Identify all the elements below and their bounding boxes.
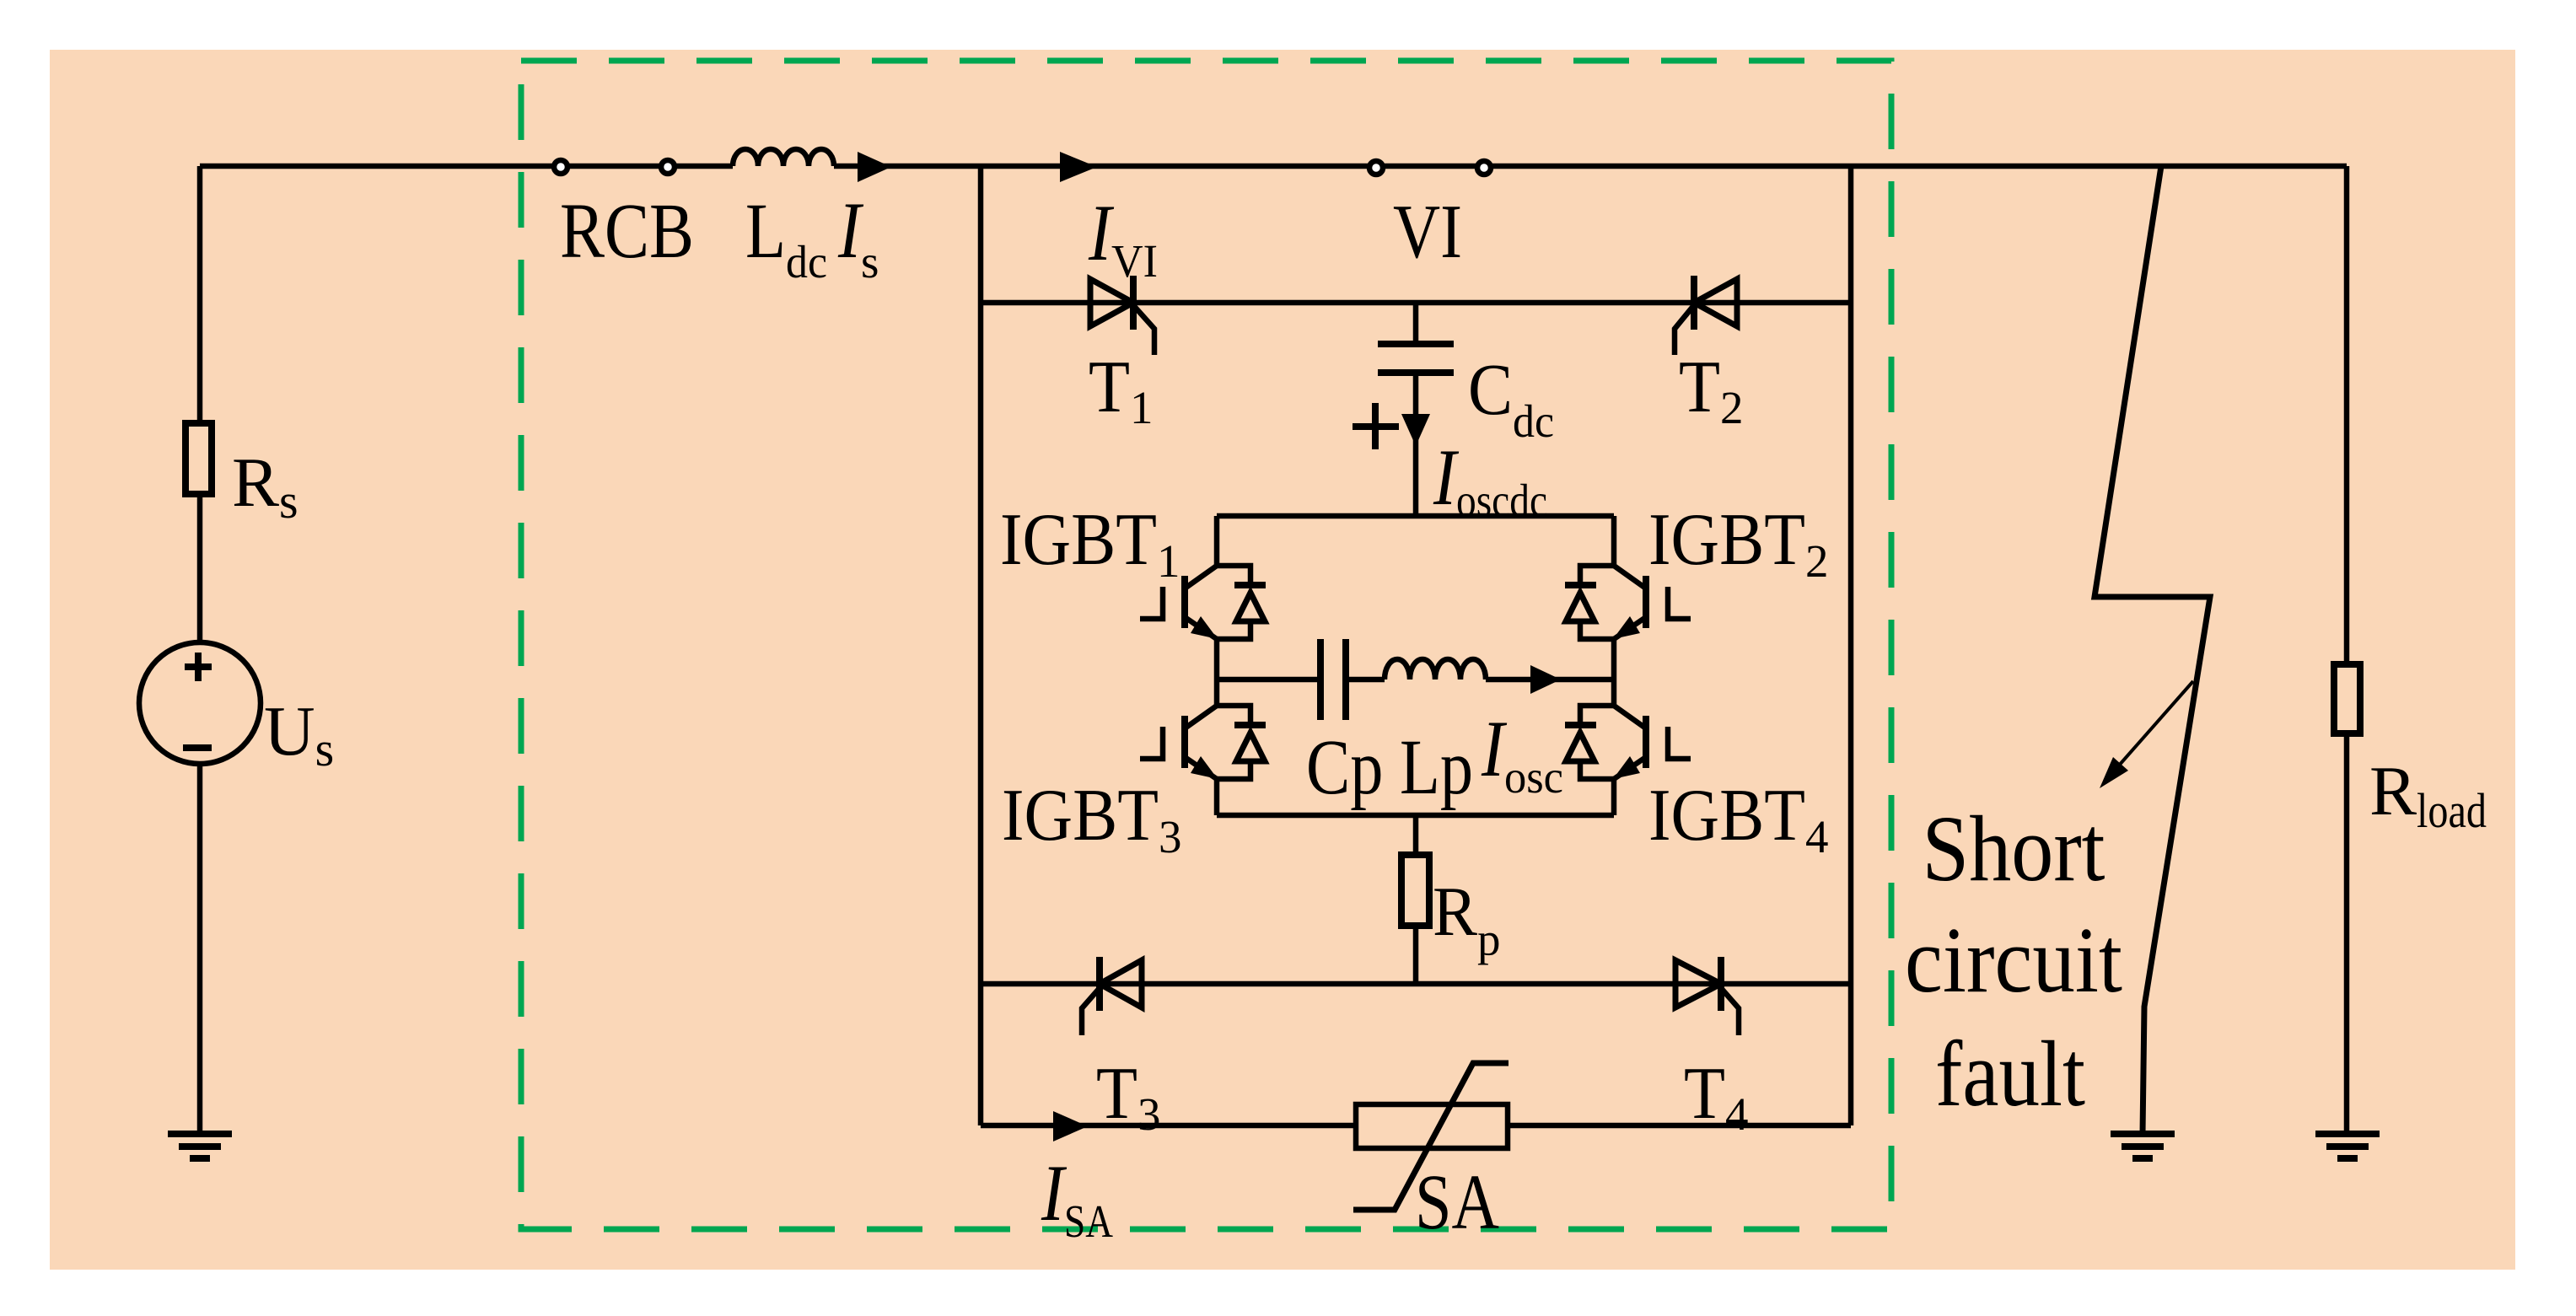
svg-text:RCB: RCB (560, 188, 694, 275)
svg-text:IGBT3: IGBT3 (1002, 775, 1182, 862)
svg-text:Short: Short (1923, 798, 2105, 901)
svg-text:circuit: circuit (1905, 909, 2122, 1013)
svg-text:SA: SA (1415, 1159, 1499, 1246)
svg-text:Cp Lp: Cp Lp (1306, 724, 1473, 811)
svg-text:IGBT4: IGBT4 (1648, 775, 1829, 862)
svg-text:VI: VI (1393, 189, 1462, 274)
svg-text:fault: fault (1935, 1023, 2085, 1126)
svg-text:IGBT2: IGBT2 (1648, 499, 1829, 587)
svg-text:IGBT1: IGBT1 (1000, 499, 1180, 587)
